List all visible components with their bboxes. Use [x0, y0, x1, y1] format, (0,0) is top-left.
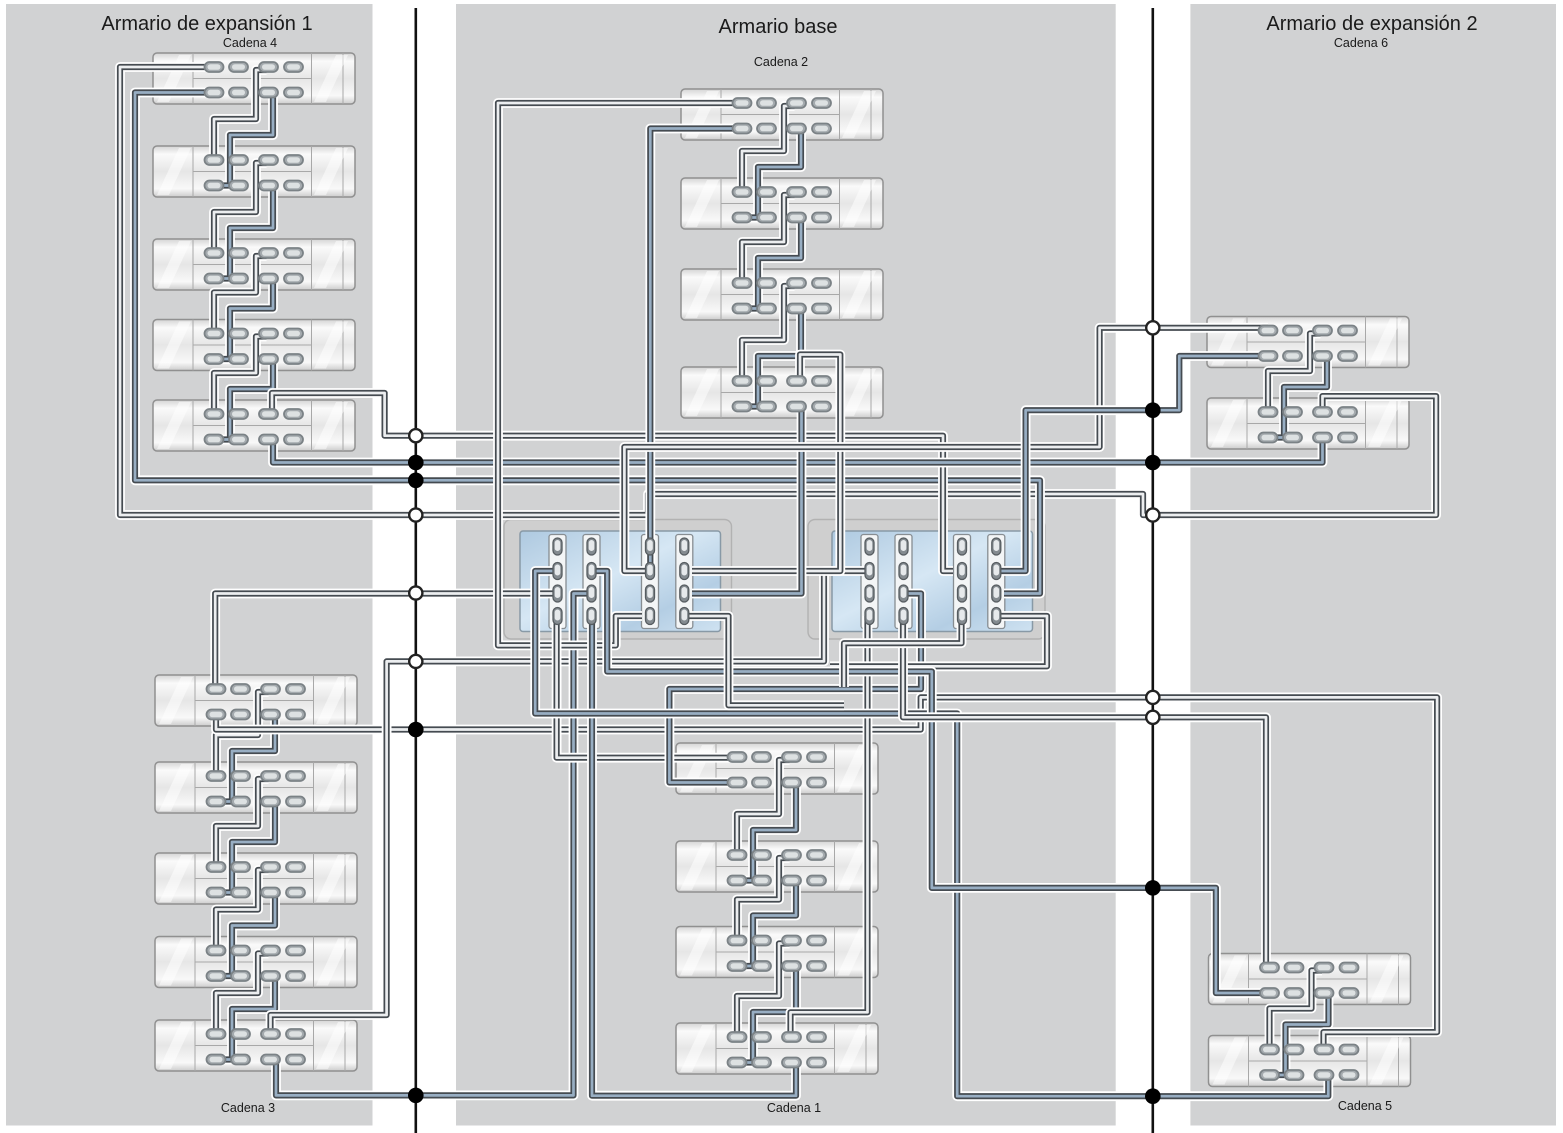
wire ctrl2 s2p3 to Cadena1-1 r2p1 — [669, 594, 921, 783]
wire ctrl2 s3p4 stub — [844, 616, 962, 687]
junction dot 6 — [1145, 455, 1161, 471]
controller 1 HBA slot 2 — [583, 535, 600, 629]
ports of shelf Cadena4-4 — [205, 329, 304, 365]
wire ctrl1 s2p3 to Cadena3-5 r2p3 — [276, 594, 592, 1096]
cabinet boundary line right — [1152, 8, 1155, 1133]
disk shelf Cadena6-1 — [1207, 317, 1409, 368]
wire Cadena1 daisy dark 1 — [737, 760, 790, 855]
junction dot 1 — [408, 455, 424, 471]
wire Cadena4 daisy dark 1 — [214, 70, 267, 160]
wire Cadena3 daisy dark 3 — [216, 870, 269, 951]
disk shelf Cadena1-3 — [676, 927, 878, 978]
wire Cadena3 daisy blue 2 — [220, 802, 275, 893]
disk shelf Cadena4-1 — [153, 53, 355, 104]
wire Cadena4 daisy blue 2 — [218, 186, 273, 279]
disk shelf Cadena1-2 — [676, 841, 878, 892]
ports of shelf Cadena3-4 — [207, 946, 306, 982]
controller 2 HBA slot 4 — [988, 535, 1005, 629]
wire Cadena2 daisy dark 1 — [742, 106, 795, 192]
ports of shelf Cadena6-1 — [1259, 326, 1358, 362]
cabinet panel: Armario base — [456, 4, 1116, 1126]
wire Cadena3 daisy dark 2 — [216, 779, 269, 867]
ports of shelf Cadena2-4 — [733, 376, 832, 412]
wire Cadena2-4 r2p3 to ctrl1 s4p3 — [692, 408, 802, 594]
wire ctrl1 s2p4 to Cadena1-4 r2p3 — [592, 616, 796, 1096]
disk shelf Cadena2-4 — [681, 367, 883, 418]
ports of shelf Cadena4-2 — [205, 155, 304, 191]
wire Cadena2-1 r1p1 to ctrl1 s3p4 — [498, 103, 742, 645]
wire Cadena4 daisy dark 2 — [214, 163, 267, 253]
wire Cadena3 daisy blue 4 — [220, 976, 275, 1060]
wire Cadena3 daisy blue 1 — [220, 715, 275, 802]
cabinet panel: Armario de expansion 1 — [6, 4, 373, 1126]
controller 1 chassis — [504, 520, 732, 640]
disk shelf Cadena3-1 — [155, 675, 357, 726]
junction dot 3 — [408, 722, 424, 738]
wire ctrl1 s1p2 to Cadena5-2 r2p3 — [535, 571, 1328, 1096]
controller 2 HBA card panel — [832, 531, 1033, 632]
wire ctrl2 s1p2 to Cadena3-5 r1p3 — [271, 571, 868, 1034]
wire Cadena3 daisy dark 1 — [216, 692, 269, 776]
ports of shelf Cadena5-2 — [1260, 1045, 1359, 1081]
wire Cadena2 daisy blue 1 — [746, 129, 801, 218]
junction dot 7 — [1145, 880, 1161, 896]
ports of shelf Cadena6-2 — [1259, 407, 1358, 443]
wire Cadena3-1 r2p1 to Cadena5-2 r1p3 — [216, 697, 1437, 1049]
wire Cadena1 daisy blue 3 — [741, 966, 796, 1063]
ports of shelf Cadena1-2 — [728, 850, 827, 886]
crossing connector circle 4 — [409, 655, 422, 668]
junction dot 4 — [408, 1088, 424, 1104]
disk shelf Cadena3-4 — [155, 937, 357, 988]
wire ctrl2 s4p2 to Cadena6-1 r2p1 — [997, 356, 1269, 571]
svg-text:Armario base: Armario base — [719, 16, 838, 38]
wire ctrl1 s4p4 stub — [684, 616, 844, 705]
wire ctrl1 s1p4 to Cadena1-1 r1p1 — [557, 616, 737, 758]
wire Cadena1 daisy dark 2 — [737, 858, 790, 941]
crossing connector circle 1 — [409, 429, 422, 442]
wire Cadena1 daisy blue 1 — [741, 783, 796, 881]
wire ctrl2 s1p4 to Cadena1-4 r1p3 — [791, 616, 868, 1037]
controller 1 HBA slot 1 — [549, 535, 566, 629]
disk shelf Cadena4-5 — [153, 400, 355, 451]
svg-text:Cadena 1: Cadena 1 — [767, 1101, 821, 1115]
ports of shelf Cadena2-2 — [733, 187, 832, 223]
crossing connector circle 7 — [1146, 691, 1159, 704]
wire Cadena2 daisy blue 3 — [746, 309, 801, 407]
disk shelf Cadena2-1 — [681, 89, 883, 140]
crossing connector circle 6 — [1146, 508, 1159, 521]
controller 2 chassis — [808, 520, 1045, 640]
ports of shelf Cadena3-5 — [207, 1029, 306, 1065]
disk shelf Cadena1-4 — [676, 1023, 878, 1074]
disk shelf Cadena1-1 — [676, 743, 878, 794]
crossing connector circle 3 — [409, 586, 422, 599]
wire Cadena2 daisy blue 2 — [746, 218, 801, 309]
junction dot 5 — [1145, 402, 1161, 418]
ports of shelf Cadena3-2 — [207, 771, 306, 807]
wire Cadena4-5 r1p3 to ctrl2 s3p2 — [272, 393, 953, 571]
disk shelf Cadena5-1 — [1209, 954, 1411, 1005]
wire Cadena2-1 r2p1 to ctrl1 s3p2 — [650, 129, 742, 564]
controller 2 HBA slot 3 — [954, 535, 971, 629]
disk shelf Cadena4-3 — [153, 239, 355, 290]
wire Cadena4-1 r2p1 to ctrl2 s4p3 — [135, 93, 1040, 594]
wire Cadena6 daisy blue 1 — [1272, 356, 1327, 438]
wire Cadena2 daisy dark 2 — [742, 195, 795, 283]
controller 1 HBA card panel — [520, 531, 721, 632]
ports of shelf Cadena3-3 — [207, 862, 306, 898]
svg-text:Cadena 3: Cadena 3 — [221, 1101, 275, 1115]
wire Cadena3 daisy dark 4 — [216, 954, 269, 1035]
wire Cadena2-4 r1p3 to ctrl1 s4p2 — [692, 355, 840, 572]
crossing connector circle 8 — [1146, 711, 1159, 724]
controller 1 HBA slot 3 — [642, 535, 659, 629]
ports of controller 1 — [553, 538, 689, 625]
wire Cadena4-5 r2p3 to Cadena6-2 r2p3 — [273, 438, 1323, 463]
wire Cadena3 daisy blue 3 — [220, 893, 275, 977]
ports of shelf Cadena5-1 — [1260, 963, 1359, 999]
wire Cadena2 daisy dark 3 — [742, 286, 795, 381]
wire Cadena1 daisy blue 2 — [741, 881, 796, 967]
disk shelf Cadena6-2 — [1207, 398, 1409, 449]
ports of shelf Cadena2-3 — [733, 278, 832, 314]
disk shelf Cadena4-4 — [153, 320, 355, 371]
svg-text:Cadena 4: Cadena 4 — [223, 36, 277, 50]
wire Cadena4 daisy blue 4 — [218, 359, 273, 440]
wire ctrl1 s2p2 to Cadena5-1 r2p1 — [592, 571, 1269, 993]
wire ctrl1 s3p2 to Cadena6-1 r1p1 — [624, 328, 1268, 571]
wire ctrl2 s2p4 to Cadena5-1 r1p1 — [903, 616, 1266, 968]
ports of shelf Cadena4-3 — [205, 248, 304, 284]
wire Cadena5 daisy dark 1 — [1270, 971, 1323, 1050]
svg-text:Cadena 2: Cadena 2 — [754, 55, 808, 69]
ports of shelf Cadena1-1 — [728, 752, 827, 788]
controller 2 HBA slot 1 — [861, 535, 878, 629]
wire Cadena4 daisy dark 4 — [214, 337, 267, 415]
wire Cadena4 daisy blue 1 — [218, 93, 273, 186]
wire Cadena5 daisy blue 1 — [1274, 993, 1329, 1075]
wire Cadena6 daisy dark 1 — [1268, 334, 1321, 413]
ports of shelf Cadena1-3 — [728, 936, 827, 972]
wire Cadena4 daisy dark 3 — [214, 256, 267, 334]
disk shelf Cadena3-2 — [155, 762, 357, 813]
wire Cadena1 daisy dark 3 — [737, 944, 790, 1038]
ports of shelf Cadena4-1 — [205, 62, 304, 98]
cabinet panel: Armario de expansion 2 — [1190, 4, 1556, 1126]
cabinet boundary line left — [414, 8, 417, 1133]
wire ctrl1 s1p3 to Cadena3-1 r1p1 — [215, 594, 557, 690]
controller 1 HBA slot 4 — [676, 535, 693, 629]
svg-text:Cadena 5: Cadena 5 — [1338, 1099, 1392, 1113]
ports of controller 2 — [865, 538, 1001, 625]
disk shelf Cadena4-2 — [153, 146, 355, 197]
wire ctrl2 s4p4 hook — [830, 616, 1047, 666]
disk shelf Cadena2-3 — [681, 269, 883, 320]
disk shelf Cadena5-2 — [1209, 1036, 1411, 1087]
junction dot 2 — [408, 473, 424, 489]
ports of shelf Cadena2-1 — [733, 98, 832, 134]
wire Cadena4-1 r1p1 to Cadena6-2 r1p3 — [120, 67, 1436, 515]
disk shelf Cadena3-3 — [155, 853, 357, 904]
svg-text:Armario de expansión 2: Armario de expansión 2 — [1266, 13, 1477, 35]
ports of shelf Cadena1-4 — [728, 1032, 827, 1068]
controller 2 HBA slot 2 — [895, 535, 912, 629]
crossing connector circle 2 — [409, 508, 422, 521]
svg-text:Cadena 6: Cadena 6 — [1334, 36, 1388, 50]
ports of shelf Cadena4-5 — [205, 409, 304, 445]
ports of shelf Cadena3-1 — [207, 684, 306, 720]
junction dot 8 — [1145, 1088, 1161, 1104]
disk shelf Cadena3-5 — [155, 1020, 357, 1071]
svg-text:Armario de expansión 1: Armario de expansión 1 — [101, 13, 312, 35]
crossing connector circle 5 — [1146, 321, 1159, 334]
wire Cadena4 daisy blue 3 — [218, 279, 273, 360]
disk shelf Cadena2-2 — [681, 178, 883, 229]
